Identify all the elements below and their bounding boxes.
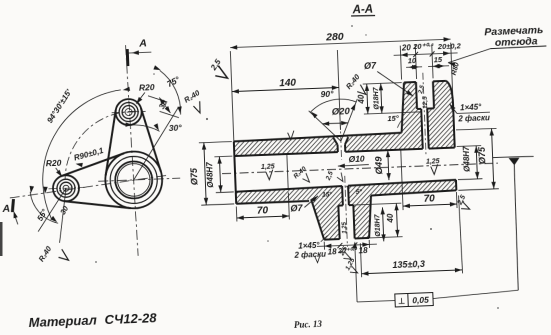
svg-text:⊥: ⊥ (398, 297, 405, 306)
svg-text:280: 280 (325, 31, 344, 44)
svg-text:2 фаски: 2 фаски (457, 113, 490, 123)
svg-text:2 фаски: 2 фаски (293, 250, 326, 260)
svg-text:15: 15 (433, 55, 443, 64)
svg-text:Ø18H7: Ø18H7 (373, 86, 381, 110)
svg-text:0,05: 0,05 (412, 295, 429, 306)
svg-text:90°: 90° (320, 89, 334, 100)
svg-text:15°: 15° (322, 190, 333, 198)
svg-text:Рис. 13: Рис. 13 (294, 319, 323, 330)
svg-text:1,25: 1,25 (261, 164, 275, 172)
svg-text:R20: R20 (139, 82, 155, 93)
svg-text:R20: R20 (46, 158, 62, 169)
svg-text:А: А (138, 37, 147, 49)
svg-text:1×45°: 1×45° (460, 103, 482, 113)
svg-text:18: 18 (358, 246, 368, 255)
svg-text:Ø7: Ø7 (364, 61, 377, 71)
svg-text:10: 10 (408, 56, 418, 65)
svg-text:12,5: 12,5 (422, 96, 429, 109)
svg-text:18: 18 (328, 247, 338, 256)
svg-text:Ø20: Ø20 (332, 106, 351, 118)
svg-text:20⁺⁰·²: 20⁺⁰·² (412, 41, 434, 51)
svg-text:1,25: 1,25 (342, 221, 348, 234)
svg-text:40: 40 (386, 213, 395, 224)
svg-text:20±0,2: 20±0,2 (437, 41, 462, 51)
svg-text:СЧ12-28: СЧ12-28 (104, 310, 157, 327)
svg-text:Ø75: Ø75 (189, 167, 200, 185)
svg-text:Ø48H7: Ø48H7 (205, 162, 215, 188)
svg-text:Ø7: Ø7 (290, 203, 303, 213)
svg-text:Ø10: Ø10 (348, 154, 365, 165)
svg-text:1,25: 1,25 (426, 158, 440, 166)
svg-text:15°: 15° (387, 114, 400, 123)
svg-text:А-А: А-А (351, 4, 373, 17)
svg-text:Ø75: Ø75 (477, 146, 488, 164)
svg-text:Ø48H7: Ø48H7 (462, 146, 472, 172)
svg-text:А: А (1, 203, 10, 215)
svg-text:140: 140 (279, 78, 297, 90)
svg-text:30°: 30° (169, 123, 183, 134)
svg-text:135±0,3: 135±0,3 (392, 259, 425, 270)
svg-text:70: 70 (423, 193, 435, 204)
svg-text:Материал: Материал (28, 312, 97, 330)
svg-text:Ø49: Ø49 (373, 156, 385, 175)
svg-text:40: 40 (357, 94, 366, 105)
svg-text:20: 20 (401, 43, 412, 52)
svg-text:70: 70 (257, 205, 269, 216)
svg-text:Ø18H7: Ø18H7 (374, 213, 382, 237)
svg-text:5°: 5° (356, 188, 363, 196)
